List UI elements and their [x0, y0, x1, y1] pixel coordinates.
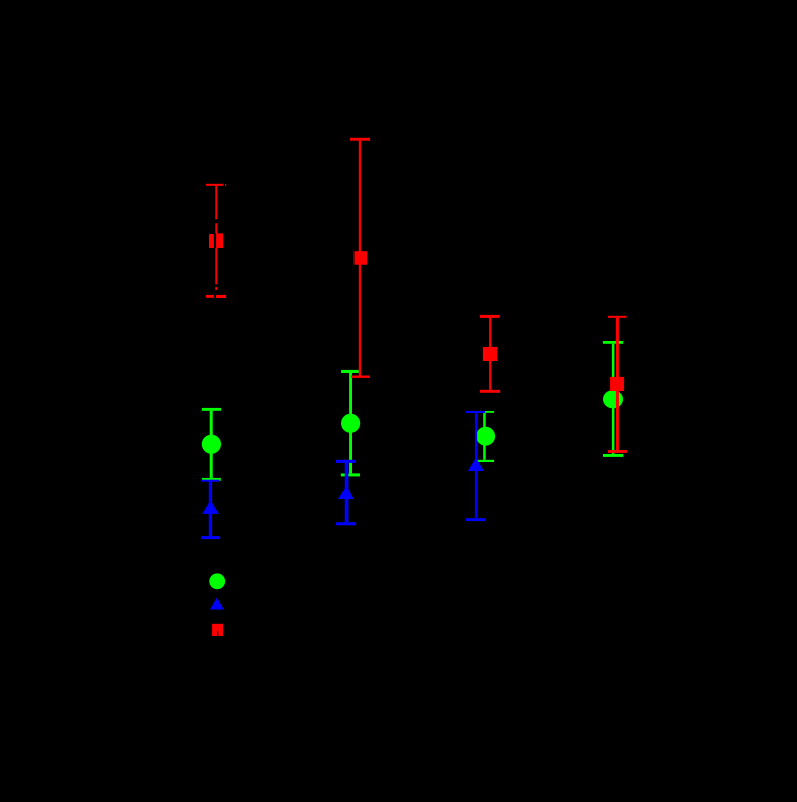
GROUP 2 blue errorbar: [336, 460, 356, 526]
GROUP 1 green errorbar: [202, 408, 221, 481]
GROUP 3 blue errorbar: [466, 411, 486, 521]
legend blue triangle: [210, 598, 224, 610]
GROUP 4 green errorbar: [603, 341, 623, 457]
legend red square: [212, 624, 223, 636]
GROUP 2 red errorbar: [350, 138, 370, 378]
legend green circle: [209, 573, 225, 589]
GROUP 4 red errorbar: [608, 316, 627, 453]
GROUP 2 green errorbar: [341, 370, 360, 477]
GROUP 3 green errorbar: [475, 411, 495, 462]
GROUP 1 red errorbar: [206, 184, 226, 298]
GROUP 3 red errorbar: [480, 315, 500, 393]
GROUP 1 blue errorbar: [201, 480, 220, 539]
